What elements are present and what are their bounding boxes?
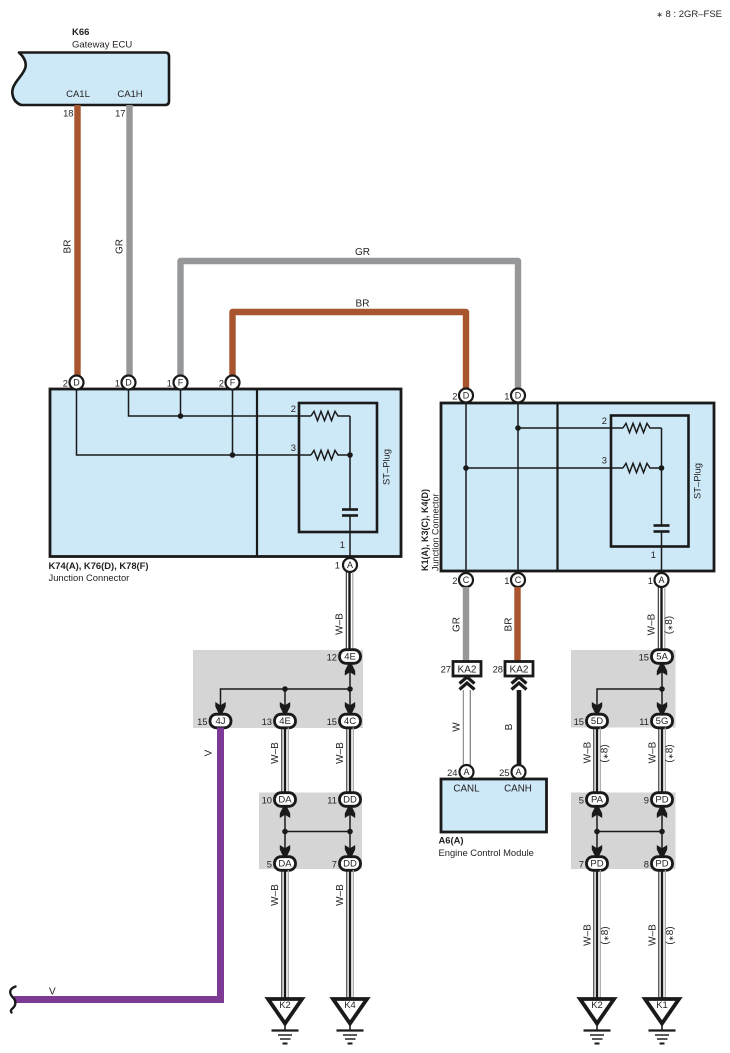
svg-text:D: D <box>125 378 132 388</box>
svg-text:(∗8): (∗8) <box>665 744 676 762</box>
svg-text:BR: BR <box>63 240 74 254</box>
svg-text:1: 1 <box>504 391 509 402</box>
connector block gray box 4 <box>571 793 676 870</box>
arrow down into 8(PD) <box>657 845 667 857</box>
wire W-B *8 from 7(PD) to ground K2 right <box>583 870 612 999</box>
pin 1(A) left box <box>335 558 357 572</box>
svg-text:W–B: W–B <box>335 884 346 906</box>
svg-text:CANL: CANL <box>453 784 480 795</box>
svg-text:1: 1 <box>648 575 653 586</box>
svg-text:D: D <box>73 378 80 388</box>
svg-text:Engine Control Module: Engine Control Module <box>439 847 534 858</box>
svg-text:18: 18 <box>63 108 73 119</box>
svg-text:5D: 5D <box>591 716 603 727</box>
wire W-B from 13(4E) to 10(DA) <box>270 728 288 794</box>
resistor R2 left <box>311 411 350 420</box>
pin 2(D) right box <box>452 389 473 403</box>
arrow down into 7(PD) <box>592 845 602 857</box>
svg-text:F: F <box>230 378 236 388</box>
oval 15(5A) <box>639 650 673 664</box>
junction connector K74 box <box>49 389 402 583</box>
svg-text:12: 12 <box>327 652 337 663</box>
wire 12(4E) down <box>349 663 351 715</box>
svg-text:(∗8): (∗8) <box>600 926 611 944</box>
node box2 b <box>347 829 353 835</box>
svg-text:A6(A): A6(A) <box>439 835 464 846</box>
resistor R2 right <box>623 423 662 432</box>
svg-text:∗ 8 : 2GR–FSE: ∗ 8 : 2GR–FSE <box>656 9 722 20</box>
oval 11(5G) <box>639 714 672 728</box>
svg-text:5G: 5G <box>656 716 669 727</box>
svg-text:KA2: KA2 <box>510 665 529 676</box>
svg-text:GR: GR <box>355 247 370 258</box>
svg-text:DA: DA <box>278 859 292 870</box>
svg-text:8: 8 <box>644 859 649 870</box>
oval 15(4C) <box>327 714 361 728</box>
node box4 b <box>659 829 665 835</box>
wire horizontal in box3 <box>597 689 662 715</box>
svg-text:A: A <box>347 560 353 570</box>
wire 13(4E) drop <box>284 689 286 715</box>
svg-text:PA: PA <box>591 795 604 806</box>
svg-text:W–B: W–B <box>335 613 346 635</box>
svg-text:BR: BR <box>504 618 515 632</box>
left box internal wire from 1(D) to resistor 2 <box>129 389 312 416</box>
arrow down into 7(DD) <box>345 845 355 857</box>
svg-text:7: 7 <box>332 859 337 870</box>
connector 28 KA2 <box>493 662 533 677</box>
svg-text:CA1L: CA1L <box>66 89 90 100</box>
svg-text:PD: PD <box>590 859 603 870</box>
svg-text:2: 2 <box>291 403 296 414</box>
svg-text:3: 3 <box>291 442 296 453</box>
svg-text:K66: K66 <box>72 27 89 38</box>
wire W-B from 5(DA) to ground K2 <box>270 870 288 999</box>
arrow up into 10(DA) <box>280 806 290 818</box>
svg-text:7: 7 <box>579 859 584 870</box>
ECU A6(A) Engine Control Module box <box>439 779 547 858</box>
svg-text:B: B <box>504 723 515 730</box>
oval 5(PA) <box>579 793 608 807</box>
oval 12(4E) <box>327 650 361 664</box>
wire W-B from left 1(A) to 12(4E) <box>335 572 353 650</box>
svg-text:(∗8): (∗8) <box>664 616 675 634</box>
wire horizontal in box1 <box>221 689 351 715</box>
svg-text:24: 24 <box>447 767 457 778</box>
oval 7(DD) <box>332 857 361 871</box>
arrow down into 5(DA) <box>280 845 290 857</box>
svg-text:15: 15 <box>639 652 649 663</box>
svg-text:K2: K2 <box>591 999 602 1010</box>
oval 9(PD) <box>644 793 673 807</box>
left box internal wire from 2(F) <box>232 389 234 455</box>
left box internal wire from 2(D) to resistor 3 <box>77 389 312 455</box>
arrow down into 15(4C) <box>345 702 355 714</box>
svg-text:W–B: W–B <box>583 741 594 763</box>
svg-text:BR: BR <box>356 299 370 310</box>
arrow up into 5(PA) <box>592 806 602 818</box>
oval 11(DD) <box>327 793 360 807</box>
svg-text:KA2: KA2 <box>458 665 477 676</box>
svg-text:5: 5 <box>579 795 584 806</box>
pin 1(A) right box <box>648 573 669 587</box>
svg-text:(∗8): (∗8) <box>665 926 676 944</box>
svg-text:W–B: W–B <box>335 742 346 764</box>
pin 1(D) right box <box>504 389 525 403</box>
node box2 a <box>282 829 288 835</box>
shield chevrons 27 <box>460 677 475 690</box>
svg-text:F: F <box>178 378 184 388</box>
oval 15(4J) <box>197 714 231 728</box>
wire BR from K66 pin 18 to junction connector 2(D) <box>63 105 78 376</box>
pin 25(A) ECM <box>499 765 525 779</box>
svg-text:CANH: CANH <box>504 784 532 795</box>
svg-text:C: C <box>515 575 522 585</box>
wire resistor outputs to capacitor right <box>661 428 663 525</box>
node on line 2 <box>178 413 184 419</box>
arrow down into 13(4E) <box>280 702 290 714</box>
wire 5A column <box>661 663 663 715</box>
svg-text:V: V <box>49 987 56 998</box>
node line2 <box>515 425 521 431</box>
svg-text:PD: PD <box>655 795 668 806</box>
pin 24(A) ECM <box>447 765 473 779</box>
pin 2(C) right box <box>452 573 473 587</box>
svg-text:15: 15 <box>327 716 337 727</box>
svg-text:2: 2 <box>63 378 68 389</box>
svg-text:A: A <box>515 767 521 777</box>
node box4 a <box>594 829 600 835</box>
svg-text:K4: K4 <box>344 999 355 1010</box>
svg-text:4E: 4E <box>344 652 356 663</box>
ST-Plug box left <box>299 403 392 532</box>
svg-text:DD: DD <box>343 795 357 806</box>
arrow up into 12(4E) <box>345 664 355 676</box>
svg-text:25: 25 <box>499 767 509 778</box>
wire PD column <box>661 806 663 857</box>
arrow up into 15(5A) <box>657 664 667 676</box>
svg-text:13: 13 <box>262 716 272 727</box>
svg-text:W: W <box>452 722 463 732</box>
svg-text:DD: DD <box>343 859 357 870</box>
wire W-B *8 from 8(PD) to ground K1 <box>648 870 677 999</box>
arrow down into 11(5G) <box>657 702 667 714</box>
svg-text:1: 1 <box>504 575 509 586</box>
wire resistor outputs to capacitor <box>349 416 351 509</box>
wire line3 to resistor <box>466 467 623 469</box>
pin 1(F) left box <box>167 376 188 390</box>
pin 1(D) left box <box>115 376 136 390</box>
svg-text:DA: DA <box>278 795 292 806</box>
svg-text:W–B: W–B <box>648 924 659 946</box>
svg-text:27: 27 <box>441 664 451 675</box>
arrow down into 15(4J) <box>215 702 225 714</box>
svg-text:ST–Plug: ST–Plug <box>381 449 392 485</box>
wire W-B *8 from right 1(A) to 15(5A) <box>647 587 676 650</box>
svg-text:15: 15 <box>197 716 207 727</box>
svg-text:W–B: W–B <box>270 884 281 906</box>
svg-text:28: 28 <box>493 664 503 675</box>
svg-text:A: A <box>658 575 664 585</box>
svg-text:1: 1 <box>335 560 340 571</box>
wire capacitor to pin 1(A) right <box>661 532 663 574</box>
svg-text:1: 1 <box>651 549 656 560</box>
svg-text:K74(A), K76(D), K78(F): K74(A), K76(D), K78(F) <box>49 560 149 571</box>
wire V purple from 4J to break <box>14 728 221 1000</box>
svg-text:W–B: W–B <box>647 613 658 635</box>
pin 2(F) left box <box>219 376 240 390</box>
resistor R3 left <box>311 450 350 459</box>
wire BR elbow from left 2(F) to right box 2(D) <box>233 299 467 390</box>
wire GR elbow from left 1(F) to right box 1(D) <box>181 247 519 389</box>
svg-text:5A: 5A <box>656 652 668 663</box>
svg-text:1: 1 <box>167 378 172 389</box>
wire W from chevron to 24(A) <box>452 690 471 765</box>
right box internal wire 1(D)-1(C) <box>517 403 519 573</box>
ground K2 left <box>268 999 302 1044</box>
wire PA column <box>596 806 598 857</box>
svg-text:PD: PD <box>655 859 668 870</box>
left box internal wire from 1(F) <box>180 389 182 416</box>
svg-text:CA1H: CA1H <box>117 89 142 100</box>
svg-text:A: A <box>463 767 469 777</box>
oval 13(4E) <box>262 714 296 728</box>
svg-text:D: D <box>463 391 470 401</box>
arrow down into 15(5D) <box>592 702 602 714</box>
wire GR from K66 pin 17 to junction connector 1(D) <box>115 105 130 376</box>
node on line 3 <box>230 452 236 458</box>
connector block gray box 3 <box>571 650 676 728</box>
svg-text:11: 11 <box>639 716 649 727</box>
svg-text:Junction Connector: Junction Connector <box>431 493 441 571</box>
pin 2(D) left box <box>63 376 84 390</box>
svg-text:4C: 4C <box>344 716 356 727</box>
oval 5(DA) <box>267 857 296 871</box>
svg-text:2: 2 <box>219 378 224 389</box>
svg-text:W–B: W–B <box>648 741 659 763</box>
wire line2 to resistor <box>518 427 623 429</box>
connector block gray box 1 <box>193 650 363 728</box>
node resistor join right <box>659 465 665 471</box>
node line3 <box>463 465 469 471</box>
node box1 a <box>282 686 288 692</box>
svg-text:K2: K2 <box>279 999 290 1010</box>
capacitor right <box>654 526 670 532</box>
svg-text:2: 2 <box>452 391 457 402</box>
svg-text:W–B: W–B <box>583 924 594 946</box>
wire W-B *8 from 15(5D) to 5(PA) <box>583 728 611 794</box>
pin 1(C) right box <box>504 573 525 587</box>
shield chevrons 28 <box>512 677 527 690</box>
oval 8(PD) <box>644 857 673 871</box>
wire DA column <box>284 806 286 857</box>
ST-Plug box right <box>611 416 703 547</box>
capacitor left <box>342 510 358 516</box>
svg-text:17: 17 <box>115 108 125 119</box>
ground K1 <box>645 999 679 1044</box>
svg-text:D: D <box>515 391 522 401</box>
wire DD column <box>349 806 351 857</box>
wire W-B from 15(4C) to 11(DD) <box>335 728 353 794</box>
wire horizontal in box2 <box>285 831 350 833</box>
wire BR from 1(C) to KA2 28 <box>504 587 518 662</box>
svg-text:Gateway ECU: Gateway ECU <box>72 40 132 51</box>
ECU K66 Gateway ECU box <box>12 27 169 105</box>
arrow up into 11(DD) <box>345 806 355 818</box>
svg-text:GR: GR <box>452 617 463 632</box>
svg-text:2: 2 <box>452 575 457 586</box>
break squiggle <box>10 987 15 1013</box>
wire W-B *8 from 11(5G) to 9(PD) <box>648 728 676 794</box>
svg-text:3: 3 <box>602 455 607 466</box>
wire GR from 2(C) to KA2 27 <box>452 587 467 662</box>
wire capacitor to pin 1(A) <box>349 516 351 559</box>
svg-text:GR: GR <box>115 239 126 254</box>
ground K2 right <box>580 999 614 1044</box>
connector 27 KA2 <box>441 662 481 677</box>
node box3 <box>659 686 665 692</box>
svg-text:5: 5 <box>267 859 272 870</box>
svg-text:10: 10 <box>262 795 272 806</box>
svg-text:K1(A), K3(C), K4(D): K1(A), K3(C), K4(D) <box>420 489 430 571</box>
node resistor join <box>347 452 353 458</box>
wire W-B from 7(DD) to ground K4 <box>335 870 353 999</box>
node box1 b <box>347 686 353 692</box>
svg-text:4E: 4E <box>279 716 291 727</box>
oval 7(PD) <box>579 857 608 871</box>
svg-text:1: 1 <box>340 539 345 550</box>
wire B from chevron to 25(A) <box>504 690 519 765</box>
right box internal wire 2(D)-2(C) <box>465 403 467 573</box>
svg-text:Junction Connector: Junction Connector <box>49 572 130 583</box>
svg-text:ST–Plug: ST–Plug <box>692 463 703 499</box>
oval 10(DA) <box>262 793 296 807</box>
wire horizontal in box4 <box>597 831 662 833</box>
connector block gray box 2 <box>259 793 362 870</box>
arrow up into 9(PD) <box>657 806 667 818</box>
svg-text:(∗8): (∗8) <box>600 744 611 762</box>
svg-text:K1: K1 <box>656 999 667 1010</box>
svg-text:4J: 4J <box>215 716 225 727</box>
svg-text:9: 9 <box>644 795 649 806</box>
resistor R3 right <box>623 463 662 472</box>
svg-text:15: 15 <box>574 716 584 727</box>
svg-text:1: 1 <box>115 378 120 389</box>
ground K4 <box>333 999 367 1044</box>
junction connector K1 box right <box>441 403 714 571</box>
svg-text:V: V <box>204 749 215 756</box>
svg-text:C: C <box>463 575 470 585</box>
svg-text:11: 11 <box>327 795 337 806</box>
svg-text:2: 2 <box>602 415 607 426</box>
svg-text:W–B: W–B <box>270 742 281 764</box>
oval 15(5D) <box>574 714 608 728</box>
